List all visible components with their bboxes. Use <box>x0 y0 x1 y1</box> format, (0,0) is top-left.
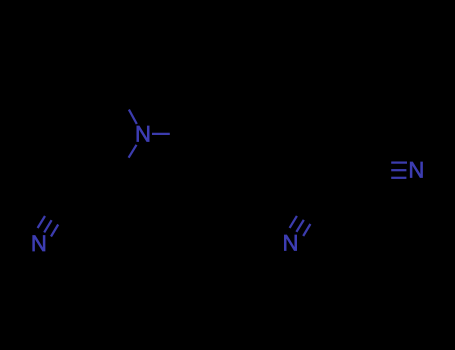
svg-text:N: N <box>408 158 424 183</box>
wire: N4 triple bond stroke middle <box>391 169 406 171</box>
wire: N2 triple bond stroke 2 <box>44 220 51 232</box>
wire: N3 triple bond stroke 1 <box>290 216 297 228</box>
wire: N1 bond to ring carbon (right half-bond) <box>152 133 170 135</box>
wire: N1 bond to methyl (up-left half-bond) <box>129 110 137 124</box>
wire: N4 triple bond stroke bottom <box>391 177 406 179</box>
wire: N2 triple bond stroke 1 <box>38 216 45 228</box>
svg-text:N: N <box>283 231 299 256</box>
wire: N2 triple bond stroke 3 <box>51 225 58 237</box>
wire: N1 bond to cyanoethyl (down-left half-bond) <box>129 145 137 158</box>
svg-text:N: N <box>31 231 47 256</box>
wire: N3 triple bond stroke 3 <box>303 224 310 236</box>
svg-text:N: N <box>135 122 151 147</box>
wire: N4 triple bond stroke top <box>391 161 407 163</box>
wire: N3 triple bond stroke 2 <box>296 220 303 232</box>
